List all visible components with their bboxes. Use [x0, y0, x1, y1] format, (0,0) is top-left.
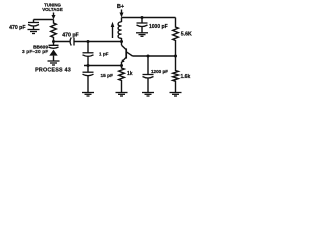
ground under R2: [116, 93, 128, 97]
svg-text:5.6K: 5.6K: [181, 31, 192, 37]
label BB609 3 pF-20 pF: [22, 45, 48, 55]
arrow variable-inductor indicator: [111, 22, 115, 38]
capacitor C5 1000 pF bypass: [137, 18, 148, 33]
resistor R2 1k emitter: [119, 66, 125, 93]
wire top-left node: [34, 19, 54, 21]
node junction divider: [174, 55, 177, 58]
label TUNING VOLTAGE: [42, 2, 63, 12]
wire tank rail: [74, 41, 122, 43]
wire node A to series cap: [54, 41, 70, 43]
node junction C3 top: [87, 40, 90, 43]
wire base rail: [133, 55, 176, 57]
terminal arrow tuning voltage input: [52, 13, 56, 20]
capacitor C3 1 pF feedback: [83, 42, 94, 66]
wire capacitor C1 stub: [33, 20, 35, 23]
svg-text:15 pF: 15 pF: [101, 73, 114, 79]
ground under R4: [170, 93, 182, 97]
ground under C1: [28, 30, 40, 34]
svg-text:3 pF–20 pF: 3 pF–20 pF: [22, 49, 48, 55]
node junction C4 top: [87, 64, 90, 67]
resistor R3 5.6k: [173, 18, 179, 57]
ground under C6: [142, 93, 154, 97]
capacitor C6 1200 pF base bypass: [143, 56, 154, 93]
svg-text:470 pF: 470 pF: [62, 32, 78, 38]
wire B+ rail: [122, 17, 176, 19]
svg-text:1.6k: 1.6k: [181, 74, 191, 80]
svg-text:1 pF: 1 pF: [99, 52, 109, 57]
varactor D1: [49, 42, 59, 62]
node junction C6 top: [147, 55, 150, 58]
svg-text:470 pF: 470 pF: [9, 25, 25, 31]
terminal arrow B+ input: [120, 10, 124, 18]
node junction tank top: [120, 40, 123, 43]
svg-text:1k: 1k: [127, 71, 133, 77]
ground under C5: [136, 33, 148, 37]
svg-text:B+: B+: [117, 4, 125, 10]
inductor L1 variable: [118, 18, 121, 42]
svg-text:PROCESS 43: PROCESS 43: [35, 67, 71, 73]
node A junction: [52, 40, 55, 43]
svg-text:VOLTAGE: VOLTAGE: [42, 7, 63, 12]
wire emitter rail: [84, 65, 122, 67]
ground under C4: [82, 93, 94, 97]
resistor R1 (tuning, unlabeled): [51, 20, 57, 42]
resistor R4 1.6k: [173, 56, 179, 93]
node junction emitter: [120, 64, 123, 67]
capacitor C4 15 pF: [83, 66, 94, 93]
node junction C5 top: [141, 16, 144, 19]
transistor Q1: [121, 42, 132, 66]
capacitor C1 470 pF bypass: [28, 23, 39, 30]
capacitor C2 470 pF series: [70, 38, 74, 46]
svg-text:1200 pF: 1200 pF: [151, 69, 168, 74]
ground under varactor: [48, 61, 60, 65]
svg-text:1000 pF: 1000 pF: [149, 24, 168, 30]
